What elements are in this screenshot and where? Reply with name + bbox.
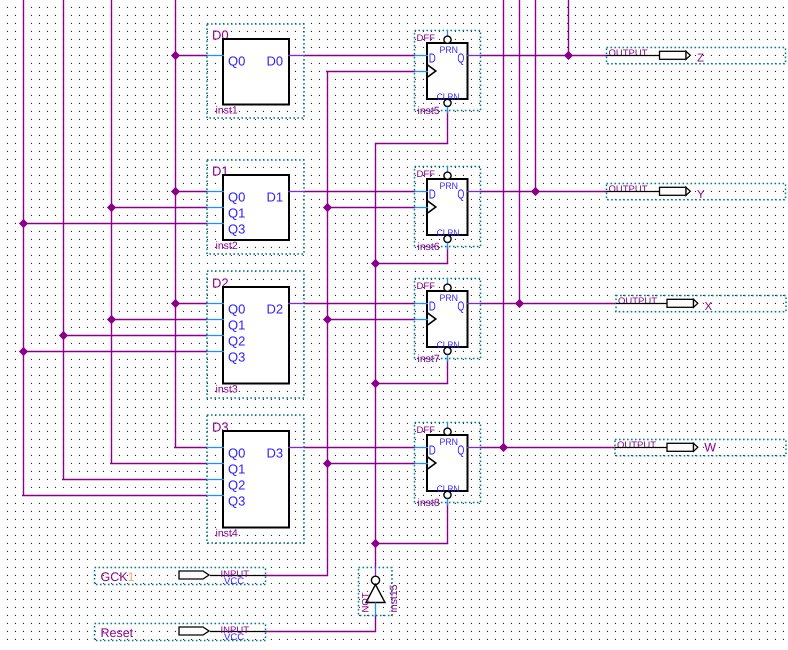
svg-text:Q: Q — [457, 299, 464, 314]
svg-text:Q2: Q2 — [228, 478, 245, 493]
wire Q3 net to D3.Q3 — [22, 495, 207, 497]
wire Q0 net to D2 input — [175, 303, 207, 305]
DFF inst6 CLRN bubble — [444, 235, 451, 242]
wire Q0 net to D0 input — [175, 55, 207, 57]
NOT gate triangle — [366, 585, 385, 603]
wire CLRN drop DFF0 — [447, 111, 449, 144]
DFF inst8 clock triangle — [427, 457, 436, 470]
DFF inst7 Q output stub — [467, 303, 481, 305]
DFF inst7 PRN stub — [447, 279, 449, 285]
svg-text:Q: Q — [457, 187, 464, 202]
junction Q1/D2 input — [107, 315, 116, 324]
svg-text:inst4: inst4 — [216, 528, 238, 540]
junction Q1/D1 input — [107, 203, 116, 212]
wire CLRN drop DFF2 — [447, 359, 449, 384]
wire Q3 feedback vertical x=23 — [23, 0, 25, 495]
D flip-flop inst7 — [415, 279, 481, 366]
svg-text:PRN: PRN — [440, 181, 459, 192]
junction Q3/D2 input — [19, 347, 28, 356]
wire NOT input riser — [375, 616, 377, 633]
DFF inst5 clock stub — [415, 71, 429, 73]
svg-text:PRN: PRN — [440, 293, 459, 304]
svg-text:Q1: Q1 — [228, 206, 245, 221]
wire D1 out to DFF1 D — [304, 191, 415, 193]
wire Q1 net to D3.Q1 — [110, 463, 207, 465]
D3 input stub Q0 — [207, 447, 224, 449]
DFF inst8 CLRN stub — [447, 499, 449, 506]
wire CLRN net riser x=375 — [375, 143, 377, 568]
D3 output stub — [288, 447, 304, 449]
svg-text:D3: D3 — [267, 446, 284, 461]
svg-text:NOT: NOT — [361, 592, 372, 612]
junction Q0/D0 input — [171, 51, 180, 60]
junction Z tap — [564, 51, 573, 60]
DFF inst6 PRN stub — [447, 167, 449, 173]
wire CLRN branch DFF1 — [375, 263, 448, 265]
svg-text:Q0: Q0 — [228, 190, 245, 205]
input pin Reset — [95, 624, 266, 643]
DFF inst5 CLRN bubble — [444, 99, 451, 106]
D2 input stub Q0 — [207, 303, 224, 305]
D1 input stub Q0 — [207, 191, 224, 193]
wire Q0 feedback vertical x=175 — [175, 0, 177, 447]
junction CLRN/DFF2 — [371, 379, 380, 388]
svg-text:Q: Q — [457, 443, 464, 458]
logic block D2 (inst3) — [207, 271, 304, 398]
D flip-flop inst8 — [415, 423, 481, 510]
wire Reset to NOT gate — [266, 631, 377, 633]
DFF inst7 D input stub — [415, 303, 429, 305]
NOT gate output stub — [375, 568, 377, 578]
output X lead line — [616, 303, 667, 305]
DFF inst8 CLRN bubble — [444, 491, 451, 498]
wire clock to DFF1 clk — [327, 207, 415, 209]
wire Q2 net to D3.Q2 — [62, 479, 207, 481]
DFF inst7 PRN bubble — [444, 284, 451, 291]
DFF inst5 PRN stub — [447, 31, 449, 37]
junction X tap — [515, 299, 524, 308]
wire Q0 net to D3 input — [174, 447, 207, 449]
svg-text:OUTPUT: OUTPUT — [617, 440, 656, 451]
wire GCK input to riser — [266, 575, 329, 577]
junction clock/DFF3 — [323, 459, 332, 468]
svg-text:D: D — [429, 299, 436, 314]
DFF inst7 clock triangle — [427, 313, 436, 326]
wire Z net vertical x=568 — [568, 0, 570, 55]
svg-text:inst2: inst2 — [216, 240, 238, 252]
svg-text:Q: Q — [457, 51, 464, 66]
wire Q1 net to D1.Q1 — [111, 207, 207, 209]
junction clock/DFF1 — [323, 203, 332, 212]
DFF inst8 D input stub — [415, 447, 429, 449]
output W lead line — [615, 447, 667, 449]
wire CLRN drop DFF1 — [447, 247, 449, 264]
logic block D3 (inst4) — [207, 415, 304, 543]
svg-text:GCK1: GCK1 — [101, 570, 135, 584]
DFF inst5 D input stub — [415, 55, 429, 57]
wire W net vertical x=503 — [503, 0, 505, 447]
junction Q3/D1 input — [19, 219, 28, 228]
NOT gate bubble — [371, 576, 379, 584]
wire DFF0 Q to output Z — [481, 55, 607, 57]
D0 output stub — [288, 55, 304, 57]
D2 input stub Q3 — [207, 351, 224, 353]
wire Q3 net to D1.Q3 — [23, 223, 207, 225]
output W flag symbol — [667, 443, 694, 451]
output Z lead line — [607, 55, 660, 57]
DFF inst5 CLRN stub — [447, 107, 449, 114]
wire Q0 net to D1 input — [175, 191, 207, 193]
input GCK1 flag symbol — [179, 571, 209, 579]
DFF inst6 body — [427, 179, 468, 235]
svg-text:inst7: inst7 — [418, 353, 440, 365]
D3 input stub Q2 — [207, 479, 224, 481]
logic block D0 (inst1) — [207, 24, 304, 118]
junction Q2/D2 input — [59, 331, 68, 340]
svg-text:D2: D2 — [267, 302, 284, 317]
DFF inst6 Q output stub — [467, 191, 481, 193]
D0 input stub Q0 — [207, 55, 224, 57]
svg-text:D: D — [429, 443, 436, 458]
junction Q0/D2 input — [171, 299, 180, 308]
DFF inst8 clock stub — [415, 463, 429, 465]
wire DFF1 Q to output Y — [481, 191, 607, 193]
wire D0 out to DFF0 D — [304, 55, 415, 57]
wire DFF2 Q to output X — [481, 303, 617, 305]
junction W tap — [499, 443, 508, 452]
svg-text:D: D — [429, 187, 436, 202]
svg-text:inst3: inst3 — [216, 384, 238, 396]
svg-text:VCC: VCC — [224, 576, 244, 587]
input pin GCK1 — [95, 568, 266, 587]
DFF inst8 PRN bubble — [444, 428, 451, 435]
DFF inst5 body — [427, 43, 468, 99]
svg-text:VCC: VCC — [224, 632, 244, 643]
svg-text:Q3: Q3 — [228, 494, 245, 509]
input Reset lead line — [210, 631, 266, 633]
wire CLRN branch DFF3 — [375, 543, 448, 545]
DFF inst5 clock triangle — [427, 65, 436, 78]
svg-text:OUTPUT: OUTPUT — [609, 184, 648, 195]
svg-text:Q3: Q3 — [228, 350, 245, 365]
svg-text:Z: Z — [697, 53, 704, 65]
output Z flag symbol — [660, 51, 687, 59]
DFF inst8 body — [427, 435, 468, 491]
svg-text:inst5: inst5 — [418, 105, 440, 117]
logic block D1 (inst2) — [207, 160, 304, 254]
svg-text:inst15: inst15 — [388, 584, 400, 612]
svg-text:D0: D0 — [267, 54, 284, 69]
DFF inst8 Q output stub — [467, 447, 481, 449]
wire Q2 feedback vertical x=63 — [63, 0, 65, 479]
DFF inst6 clock triangle — [427, 201, 436, 214]
DFF inst5 Q output stub — [467, 55, 481, 57]
DFF inst7 body — [427, 291, 468, 347]
input GCK1 lead line — [210, 575, 266, 577]
D1 input stub Q3 — [207, 223, 224, 225]
svg-text:Q0: Q0 — [228, 302, 245, 317]
block D1 body — [223, 175, 289, 240]
svg-text:X: X — [705, 301, 713, 313]
output pin X — [616, 296, 786, 314]
svg-text:inst6: inst6 — [418, 241, 440, 253]
wire DFF3 Q to output W — [481, 447, 616, 449]
svg-text:inst1: inst1 — [216, 105, 238, 117]
svg-text:Y: Y — [697, 189, 705, 201]
wire CLRN branch DFF0 — [375, 143, 448, 145]
DFF inst7 clock stub — [415, 319, 429, 321]
wire Q1 feedback vertical x=111 — [111, 0, 113, 463]
wire D3 out to DFF3 D — [304, 447, 415, 449]
DFF inst8 PRN stub — [447, 423, 449, 429]
svg-text:W: W — [704, 441, 716, 455]
svg-text:PRN: PRN — [440, 45, 459, 56]
NOT gate inst15 — [359, 568, 401, 616]
svg-text:Q1: Q1 — [228, 318, 245, 333]
output pin Z — [607, 48, 786, 65]
wire Y net vertical x=535 — [535, 0, 537, 191]
junction clock/DFF2 — [323, 315, 332, 324]
svg-text:OUTPUT: OUTPUT — [618, 296, 657, 307]
wire Q2 net to D2.Q2 — [63, 335, 207, 337]
junction CLRN/DFF3 — [371, 539, 380, 548]
D flip-flop inst5 — [415, 31, 481, 118]
junction Q0/D1 input — [171, 187, 180, 196]
D2 output stub — [288, 303, 304, 305]
wire CLRN drop DFF3 — [447, 503, 449, 544]
wire clock to DFF3 clk — [327, 463, 415, 465]
D1 output stub — [288, 191, 304, 193]
svg-text:OUTPUT: OUTPUT — [609, 48, 648, 59]
wire clock to DFF2 clk — [327, 319, 415, 321]
DFF inst7 CLRN stub — [447, 355, 449, 362]
block D2 body — [223, 287, 289, 384]
output pin W — [615, 440, 786, 456]
wire Q1 net to D2.Q1 — [111, 319, 207, 321]
D1 input stub Q1 — [207, 207, 224, 209]
DFF inst5 PRN bubble — [444, 36, 451, 43]
D flip-flop inst6 — [415, 167, 481, 254]
svg-text:Q3: Q3 — [228, 222, 245, 237]
svg-text:Reset: Reset — [101, 626, 134, 640]
wire clock net GCK riser x=327 — [327, 71, 329, 576]
wire clock to DFF0 clk — [326, 71, 415, 73]
block D0 body — [223, 39, 289, 105]
output X flag symbol — [667, 299, 694, 307]
svg-text:PRN: PRN — [440, 437, 459, 448]
svg-text:Q0: Q0 — [228, 54, 245, 69]
wire Q3 net to D2.Q3 — [23, 351, 207, 353]
DFF inst6 clock stub — [415, 207, 429, 209]
input Reset flag symbol — [179, 627, 209, 635]
junction Y tap — [531, 187, 540, 196]
output Y flag symbol — [660, 187, 687, 195]
svg-text:Q1: Q1 — [228, 462, 245, 477]
D2 input stub Q1 — [207, 319, 224, 321]
DFF inst6 CLRN stub — [447, 243, 449, 250]
svg-text:inst8: inst8 — [418, 497, 440, 509]
wire CLRN branch DFF2 — [375, 383, 448, 385]
D2 input stub Q2 — [207, 335, 224, 337]
output Y lead line — [607, 191, 660, 193]
svg-text:Q0: Q0 — [228, 446, 245, 461]
block D3 body — [223, 431, 289, 528]
NOT gate input stub — [375, 603, 377, 616]
DFF inst6 D input stub — [415, 191, 429, 193]
D3 input stub Q1 — [207, 463, 224, 465]
svg-text:Q2: Q2 — [228, 334, 245, 349]
D3 input stub Q3 — [207, 495, 224, 497]
output pin Y — [607, 184, 786, 201]
wire D2 out to DFF2 D — [304, 303, 415, 305]
DFF inst7 CLRN bubble — [444, 347, 451, 354]
junction CLRN/DFF1 — [371, 259, 380, 268]
svg-text:D1: D1 — [267, 190, 284, 205]
wire X net vertical x=519 — [519, 0, 521, 303]
DFF inst6 PRN bubble — [444, 172, 451, 179]
svg-text:D: D — [429, 51, 436, 66]
